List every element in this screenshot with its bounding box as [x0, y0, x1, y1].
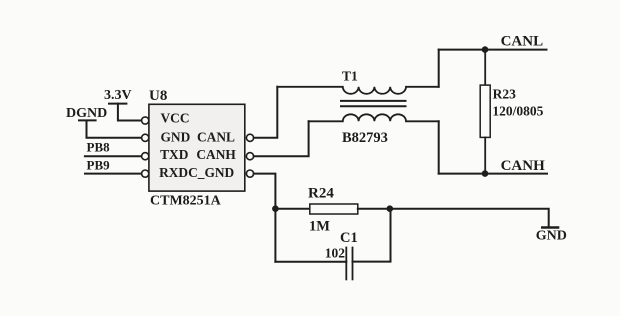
pin TXD circle — [142, 153, 149, 160]
wire C1 right lead up to R24 node — [353, 209, 391, 262]
capacitor C1 right plate — [352, 248, 354, 280]
svg-text:CANH: CANH — [501, 158, 545, 174]
svg-text:TXD: TXD — [160, 147, 189, 162]
svg-text:U8: U8 — [149, 88, 167, 104]
svg-text:T1: T1 — [342, 69, 358, 84]
wire to R24 left lead — [275, 208, 309, 210]
transformer T1 secondary winding — [309, 114, 439, 121]
svg-text:DGND: DGND — [66, 106, 107, 121]
pin GND2 circle — [246, 170, 253, 177]
pin VCC circle — [142, 117, 149, 124]
power 3.3V bar symbol — [109, 103, 126, 105]
junction dot R24/C1 right — [387, 205, 394, 212]
pin RXD circle — [142, 170, 149, 177]
wire RXD C_GND pin down — [254, 174, 276, 262]
svg-text:PB9: PB9 — [87, 157, 111, 172]
wire 3.3V to VCC pin — [118, 104, 141, 121]
wire C1 left lead — [275, 261, 346, 263]
net CANH rail — [439, 173, 547, 175]
svg-text:RXDC_GND: RXDC_GND — [159, 165, 234, 180]
wire DGND to GND pin — [87, 121, 142, 138]
junction dot CANH/R23 — [482, 170, 489, 177]
wire R23 top lead — [484, 50, 486, 86]
junction dot R24 left — [272, 205, 279, 212]
svg-text:CTM8251A: CTM8251A — [150, 193, 222, 208]
wire transformer bottom to CANH rail — [438, 121, 440, 173]
junction dot CANL/R23 — [482, 46, 489, 53]
wire R24 right lead to GND — [358, 209, 549, 227]
transformer T1 primary winding — [277, 87, 438, 94]
wire transformer top to CANL rail — [438, 50, 440, 87]
svg-text:102: 102 — [325, 246, 346, 261]
wire CANH pin to transformer bottom — [254, 121, 309, 156]
svg-text:GND: GND — [161, 129, 191, 144]
svg-text:VCC: VCC — [161, 110, 190, 125]
pin GND circle — [142, 134, 149, 141]
svg-text:CANL: CANL — [197, 129, 235, 144]
resistor R23 body — [480, 85, 490, 137]
pin CANL circle — [246, 134, 253, 141]
capacitor C1 left plate — [345, 248, 347, 280]
transformer T1 core — [341, 101, 406, 106]
svg-text:B82793: B82793 — [342, 130, 388, 146]
wire PB8 to TXD pin — [85, 155, 141, 157]
svg-text:C1: C1 — [340, 230, 358, 246]
svg-text:1M: 1M — [309, 218, 330, 234]
resistor R24 body — [310, 204, 358, 214]
svg-text:R24: R24 — [308, 186, 334, 202]
svg-text:CANL: CANL — [501, 33, 544, 49]
wire R23 bottom lead — [484, 137, 486, 173]
pin CANH circle — [246, 153, 253, 160]
svg-text:120/0805: 120/0805 — [492, 104, 543, 119]
svg-text:3.3V: 3.3V — [104, 88, 132, 103]
DGND bar symbol — [79, 119, 96, 121]
svg-text:R23: R23 — [493, 87, 516, 102]
wire PB9 to RXD pin — [85, 173, 141, 175]
svg-text:GND: GND — [536, 229, 567, 244]
net CANL rail — [439, 49, 547, 51]
IC U8 CTM8251A body — [149, 104, 245, 191]
svg-text:CANH: CANH — [196, 147, 236, 162]
svg-text:PB8: PB8 — [87, 140, 111, 155]
wire CANL pin to transformer top — [254, 87, 277, 138]
ground symbol bar — [542, 226, 558, 229]
